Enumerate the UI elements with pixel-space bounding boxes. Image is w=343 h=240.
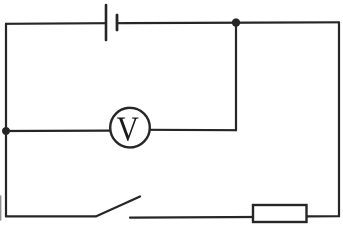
battery cell B1 short plate	[116, 15, 119, 30]
wire left vertical	[5, 24, 7, 217]
wire voltmeter branch left	[6, 130, 110, 133]
wire bottom-middle segment (switch contact to resistor)	[130, 216, 253, 219]
wire bottom-left segment	[6, 215, 96, 217]
resistor R1 body	[253, 205, 307, 222]
scan edge artifact left border	[0, 196, 2, 220]
wire top-left segment	[6, 22, 106, 25]
svg-text:V: V	[117, 111, 139, 149]
node junction left	[2, 127, 10, 135]
node junction top	[232, 18, 240, 26]
switch S1 lever (open)	[96, 197, 140, 217]
wire voltmeter branch right	[150, 129, 236, 132]
wire right vertical	[307, 22, 339, 216]
battery cell B1 long plate	[105, 5, 108, 40]
wire vertical from top junction to voltmeter branch	[235, 23, 237, 131]
wire top-right segment	[117, 21, 339, 24]
voltmeter U1 circle	[110, 108, 150, 148]
